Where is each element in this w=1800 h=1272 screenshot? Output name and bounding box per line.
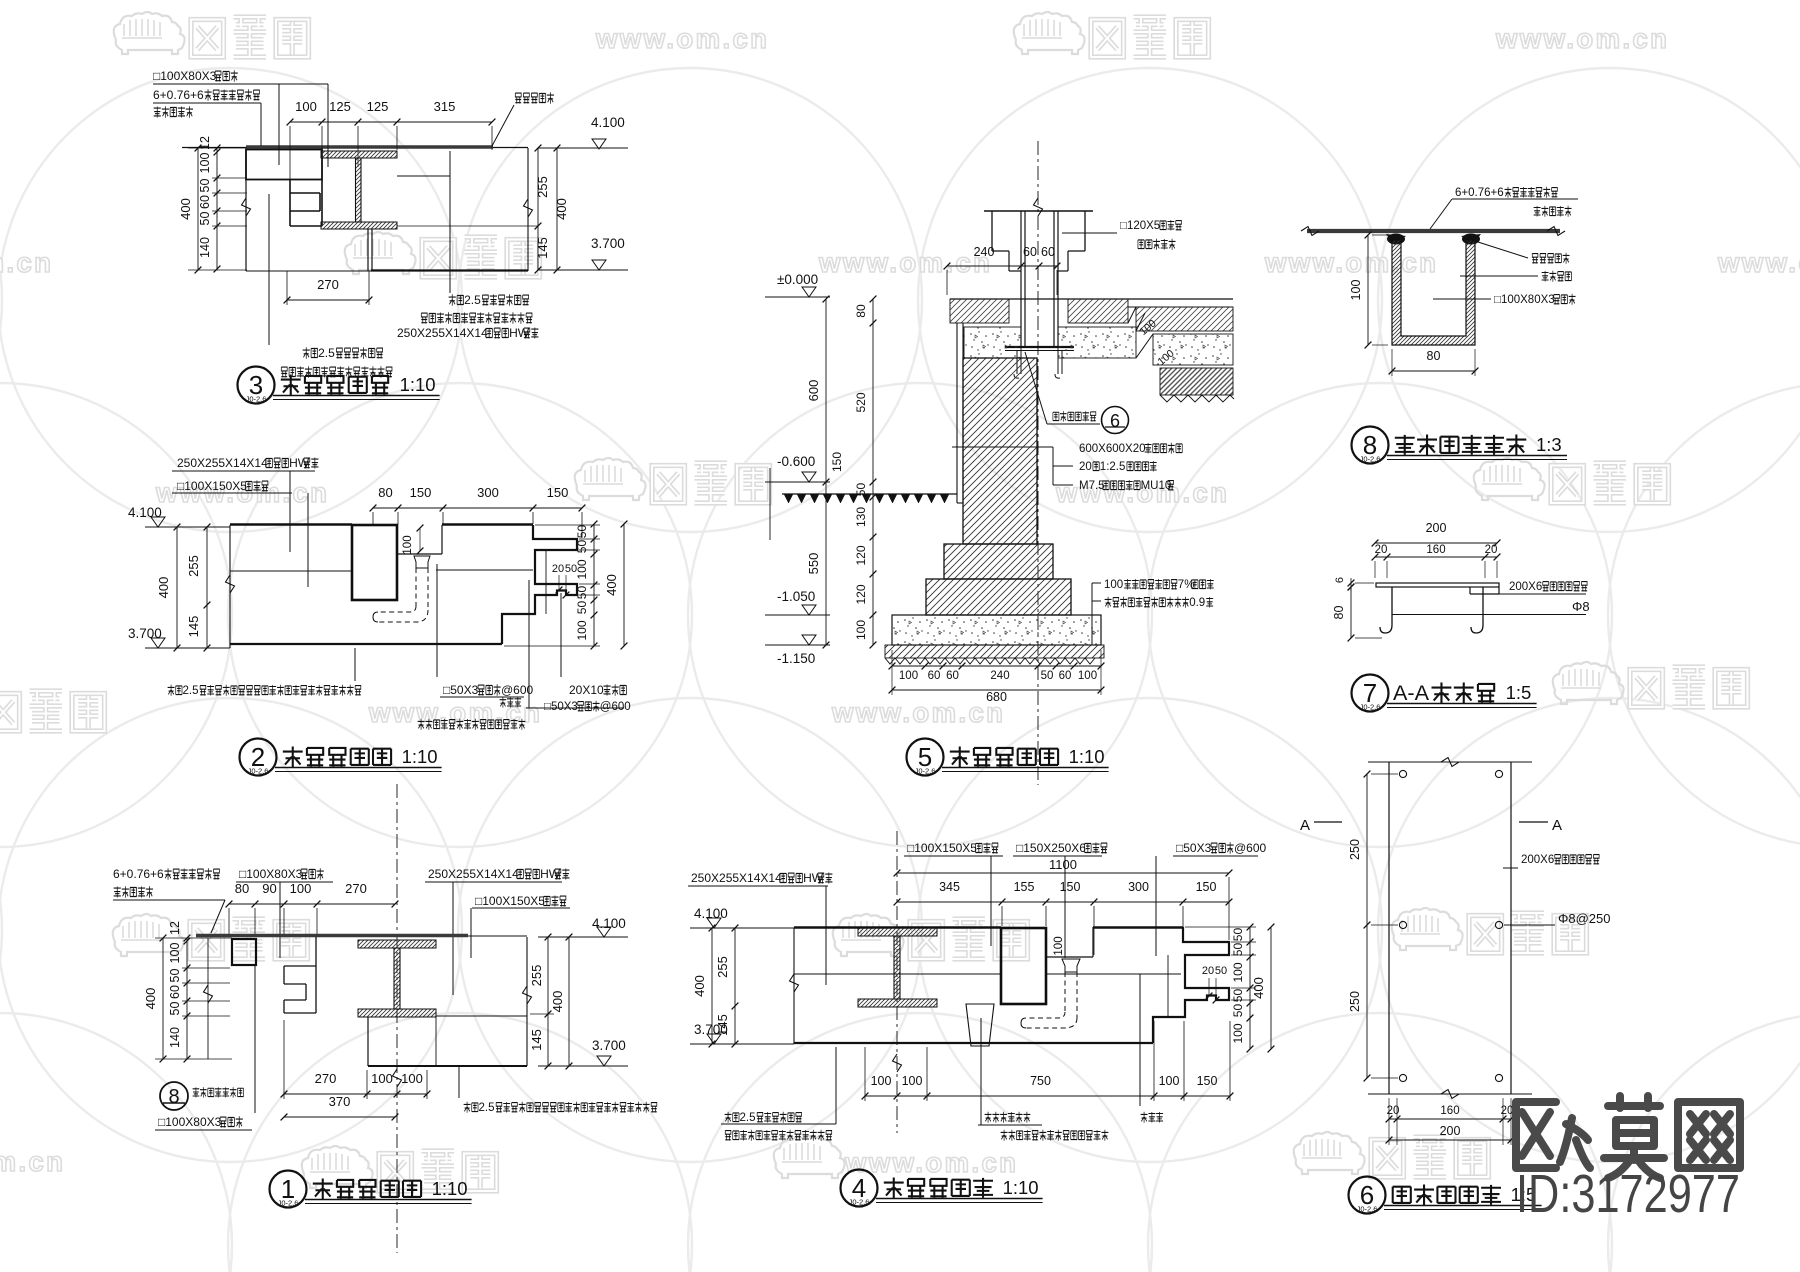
dim 1100 <box>897 872 1229 874</box>
svg-text:250: 250 <box>1348 991 1362 1012</box>
H-beam web hatched <box>356 158 362 222</box>
svg-text:6+0.76+6: 6+0.76+6 <box>153 88 204 102</box>
svg-text:255: 255 <box>535 176 550 198</box>
centerline <box>896 831 898 1133</box>
svg-text:4.100: 4.100 <box>694 906 728 921</box>
detail 8 glass fixing <box>1301 187 1578 376</box>
label glass <box>153 88 259 102</box>
svg-text:80: 80 <box>235 881 249 896</box>
svg-text:3.700: 3.700 <box>592 1038 626 1053</box>
svg-text:100: 100 <box>371 1071 393 1086</box>
svg-text:160: 160 <box>1426 544 1445 556</box>
svg-text:J0-2.6: J0-2.6 <box>1357 1205 1378 1214</box>
top dim chain 345/155/150/300/150 <box>897 901 1229 903</box>
H-beam top flange <box>321 151 397 158</box>
elevation 3.700 <box>592 260 606 270</box>
baseplate <box>1005 346 1074 348</box>
150X250X6 tube <box>352 525 397 600</box>
elevation -1.050 <box>802 605 816 615</box>
svg-text:50: 50 <box>198 179 212 193</box>
svg-text:100: 100 <box>575 559 589 579</box>
svg-text:60: 60 <box>928 670 941 682</box>
svg-text:50: 50 <box>1231 943 1245 957</box>
svg-text:270: 270 <box>315 1071 337 1086</box>
soffit line right <box>1046 973 1181 975</box>
svg-text:100: 100 <box>1159 1074 1180 1088</box>
svg-text:400: 400 <box>156 577 171 599</box>
svg-text:www.om.cn: www.om.cn <box>1264 247 1438 278</box>
svg-text:80: 80 <box>1427 349 1441 363</box>
svg-text:255: 255 <box>715 956 730 978</box>
svg-text:1:10: 1:10 <box>402 746 438 767</box>
centerline <box>396 784 398 1253</box>
svg-text:100: 100 <box>575 620 589 640</box>
svg-text:2.5: 2.5 <box>464 293 481 307</box>
label tube <box>1494 294 1576 306</box>
notch 100 <box>397 553 442 555</box>
svg-text:140: 140 <box>168 1027 182 1048</box>
plate stub below right <box>1470 593 1499 595</box>
svg-text:1:5: 1:5 <box>1506 682 1532 703</box>
dim 680 <box>892 689 1101 691</box>
svg-text:345: 345 <box>939 880 960 894</box>
svg-text:□100X80X3: □100X80X3 <box>153 69 217 83</box>
svg-text:150: 150 <box>410 485 432 500</box>
svg-text:2.5: 2.5 <box>183 685 199 697</box>
svg-text:130: 130 <box>854 507 868 527</box>
svg-text:400: 400 <box>143 988 158 1010</box>
label 20X10 drip <box>569 683 626 697</box>
detail 5 section <box>765 141 1234 785</box>
svg-text:400: 400 <box>178 198 193 220</box>
svg-text:J0-2.6: J0-2.6 <box>849 1198 870 1207</box>
svg-text:50: 50 <box>1231 928 1245 942</box>
svg-text:100: 100 <box>1231 1023 1245 1043</box>
bottom label aluminium <box>168 685 361 697</box>
glass panel thick <box>246 145 493 149</box>
label 100X80X3 bottom <box>158 1115 243 1129</box>
svg-text:@600: @600 <box>1234 841 1267 855</box>
right dims <box>547 937 549 1066</box>
bolt holes <box>1399 770 1406 777</box>
svg-text:A-A: A-A <box>1393 680 1430 705</box>
svg-text:4.100: 4.100 <box>128 505 162 520</box>
svg-text:4.100: 4.100 <box>591 115 625 130</box>
paving slab top line <box>950 298 1233 300</box>
left slab hatch <box>950 299 1009 323</box>
svg-text:2.5: 2.5 <box>479 1102 495 1114</box>
label drain pipe <box>500 697 522 708</box>
svg-text:270: 270 <box>345 881 367 896</box>
right slab surface line <box>1128 306 1233 308</box>
left dims <box>186 938 188 1059</box>
label aluminium plate left <box>303 346 383 360</box>
right dim 400 <box>556 148 558 270</box>
svg-text:60: 60 <box>1023 245 1037 259</box>
svg-text:145: 145 <box>715 1014 730 1036</box>
leader to bottom label <box>254 965 256 1113</box>
svg-text:150: 150 <box>830 452 844 472</box>
svg-text:50: 50 <box>575 540 589 554</box>
bottom plate stubs <box>367 229 369 271</box>
dim 370 <box>284 1116 395 1118</box>
svg-text:www.om.cn: www.om.cn <box>1495 23 1669 54</box>
leader 50X3 <box>436 564 438 677</box>
bottom labels <box>725 1112 802 1124</box>
label 150X250X6 tube <box>1016 841 1107 855</box>
elevation 3.700 <box>151 638 165 648</box>
svg-text:255: 255 <box>186 555 201 577</box>
svg-text:100: 100 <box>198 153 212 174</box>
H-beam bottom flange <box>321 222 397 229</box>
svg-text:@600: @600 <box>600 701 631 713</box>
right boundary with fins and drip notch <box>502 525 577 644</box>
bottom boundary <box>246 270 371 272</box>
svg-text:□150X250X6: □150X250X6 <box>1016 841 1086 855</box>
label 100X150X5 tube <box>177 479 268 493</box>
glass panel thin ends <box>182 147 528 149</box>
svg-text:www.om.cn: www.om.cn <box>831 697 1005 728</box>
gravel layer below footing <box>885 645 1104 658</box>
svg-text:20: 20 <box>1387 1105 1400 1117</box>
svg-text:100: 100 <box>1231 962 1245 982</box>
svg-text:160: 160 <box>1440 1105 1459 1117</box>
pier step 1 <box>944 544 1053 579</box>
stone cladding face <box>956 323 958 503</box>
svg-text:12: 12 <box>168 921 182 935</box>
svg-text:20: 20 <box>1079 461 1092 473</box>
labels base layers <box>1104 579 1214 591</box>
slab joint diagonals <box>1128 307 1136 323</box>
label 100X150X5 tube <box>475 894 566 908</box>
svg-text:□100X80X3: □100X80X3 <box>158 1115 222 1129</box>
svg-text:400: 400 <box>550 991 565 1013</box>
elevation +-0.000 <box>802 287 816 297</box>
svg-text:125: 125 <box>329 99 351 114</box>
svg-text:60: 60 <box>946 670 959 682</box>
svg-text:□50X3: □50X3 <box>1176 841 1212 855</box>
svg-text:A: A <box>1300 817 1310 834</box>
svg-text:1:2.5: 1:2.5 <box>1100 461 1126 473</box>
elevation 4.100 <box>707 918 721 928</box>
svg-text:370: 370 <box>329 1094 351 1109</box>
svg-text:20: 20 <box>1485 544 1498 556</box>
dim 80 bottom <box>1392 370 1475 372</box>
svg-text:150: 150 <box>1196 880 1217 894</box>
svg-text:50: 50 <box>854 483 868 497</box>
title bubble 8 <box>1352 427 1389 464</box>
svg-text:50: 50 <box>1041 670 1054 682</box>
dim 200 <box>1375 542 1497 544</box>
detail 6 embedded plate <box>1300 758 1611 1146</box>
svg-text:250: 250 <box>1348 839 1362 860</box>
label 100X150X5 tube <box>907 841 998 855</box>
svg-text:1:10: 1:10 <box>432 1178 468 1199</box>
svg-text:80: 80 <box>378 485 392 500</box>
svg-text:6: 6 <box>1110 411 1120 431</box>
elevation 3.700 <box>597 1056 611 1066</box>
detail 1 section <box>113 784 657 1253</box>
svg-text:□120X5: □120X5 <box>1120 220 1160 232</box>
label silicone <box>1532 253 1569 264</box>
soffit line left <box>794 973 1001 975</box>
title bubble 4 <box>841 1170 878 1207</box>
svg-text:ID:3172977: ID:3172977 <box>1516 1164 1740 1224</box>
svg-text:250X255X14X14: 250X255X14X14 <box>428 867 519 881</box>
svg-text:100: 100 <box>402 535 414 554</box>
svg-text:M7.5: M7.5 <box>1079 480 1105 492</box>
svg-text:100: 100 <box>1104 579 1123 591</box>
svg-text:60: 60 <box>1059 670 1072 682</box>
title bubble 2 <box>240 739 277 776</box>
label drainage system <box>418 719 526 730</box>
svg-text:200X6: 200X6 <box>1509 581 1542 593</box>
panel joint lines <box>397 175 450 177</box>
svg-text:J0-2.6: J0-2.6 <box>1360 703 1381 712</box>
svg-text:100: 100 <box>902 1074 923 1088</box>
svg-text:200X6: 200X6 <box>1521 854 1554 866</box>
right boundary with fins and drip notch <box>1153 927 1229 1043</box>
glass line <box>196 934 468 937</box>
title bubble 6 <box>1349 1177 1386 1214</box>
cap plate outline <box>991 211 993 251</box>
svg-text:2.5: 2.5 <box>740 1112 756 1124</box>
glass line <box>1307 229 1560 233</box>
label plate <box>1521 854 1599 866</box>
svg-text:100: 100 <box>290 881 312 896</box>
svg-text:0.9: 0.9 <box>1189 597 1205 609</box>
svg-text:3.700: 3.700 <box>128 626 162 641</box>
label glass pad <box>1542 271 1572 282</box>
dim 270 <box>287 299 369 301</box>
svg-text:□50X3: □50X3 <box>443 683 479 697</box>
drain pipe dashed <box>415 568 417 606</box>
elevation 4.100 <box>597 927 611 937</box>
label HW steel <box>691 871 832 885</box>
pier stem hatched <box>963 358 1037 544</box>
svg-text:100: 100 <box>295 99 317 114</box>
svg-text:90: 90 <box>262 881 276 896</box>
downlight trapezoid <box>966 1004 994 1046</box>
svg-text:J0-2.6: J0-2.6 <box>915 767 936 776</box>
svg-text:315: 315 <box>434 99 456 114</box>
svg-text:J0-2.6: J0-2.6 <box>248 767 269 776</box>
elevation 4.100 <box>151 517 165 527</box>
svg-text:300: 300 <box>1128 880 1149 894</box>
svg-text:12: 12 <box>198 136 212 150</box>
H-beam bottom flange <box>358 1009 436 1017</box>
elevation -1.150 <box>802 635 816 645</box>
left boundary <box>229 525 231 648</box>
H-beam top flange <box>358 940 436 948</box>
svg-text:100: 100 <box>401 1071 423 1086</box>
label silicone sealant <box>515 92 554 103</box>
svg-text:150: 150 <box>1060 880 1081 894</box>
svg-text:125: 125 <box>367 99 389 114</box>
aluminium comb profile <box>290 180 322 227</box>
bottom line <box>794 1042 1153 1044</box>
svg-text:250X255X14X14: 250X255X14X14 <box>177 456 268 470</box>
embedded part ref bubble 6 <box>1053 411 1096 422</box>
svg-text:20: 20 <box>552 563 564 575</box>
pier step 2 <box>926 579 1071 615</box>
drain funnel <box>1062 959 1080 972</box>
mid panel line <box>230 570 352 572</box>
svg-text:□100X150X5: □100X150X5 <box>475 894 545 908</box>
drip leader <box>560 593 562 677</box>
svg-text:±0.000: ±0.000 <box>777 272 818 287</box>
svg-text:200: 200 <box>1426 521 1447 535</box>
svg-text:120: 120 <box>854 545 868 565</box>
svg-text:www.om.cn: www.om.cn <box>818 247 992 278</box>
svg-text:600: 600 <box>806 380 821 402</box>
svg-text:400: 400 <box>604 574 619 596</box>
footing concrete <box>892 615 1101 645</box>
svg-text:□100X80X3: □100X80X3 <box>239 867 303 881</box>
svg-text:J0-2.6: J0-2.6 <box>278 1199 299 1208</box>
svg-text:50: 50 <box>1231 1004 1245 1018</box>
svg-text:-0.600: -0.600 <box>777 454 815 469</box>
svg-text:50: 50 <box>575 586 589 600</box>
steel channel 100X80X3 hatched walls <box>1392 240 1475 345</box>
detail 7 A-A section <box>1332 521 1590 641</box>
title bubble 1 <box>270 1171 307 1208</box>
H-beam web hatched <box>394 948 400 1009</box>
svg-text:250X255X14X14: 250X255X14X14 <box>397 326 488 340</box>
svg-text:140: 140 <box>198 237 212 258</box>
svg-text:50: 50 <box>168 969 182 983</box>
svg-text:100: 100 <box>854 620 868 640</box>
title bubble 7 <box>1352 675 1389 712</box>
svg-text:A: A <box>1552 817 1562 834</box>
svg-text:680: 680 <box>986 690 1007 704</box>
svg-text:□100X150X5: □100X150X5 <box>907 841 977 855</box>
svg-text:60: 60 <box>168 985 182 999</box>
svg-text:155: 155 <box>1014 880 1035 894</box>
svg-text:150: 150 <box>1197 1074 1218 1088</box>
labels <box>1455 187 1557 199</box>
svg-text:400: 400 <box>1251 977 1266 999</box>
svg-text:100: 100 <box>1053 936 1065 955</box>
H-beam bottom flange <box>858 999 937 1007</box>
inner panel line <box>545 550 547 614</box>
inner panel line right <box>1167 955 1169 1017</box>
svg-text:□100X150X5: □100X150X5 <box>177 479 247 493</box>
label plate <box>1509 581 1587 593</box>
bottom label 50X3 steel <box>443 683 534 697</box>
svg-text:255: 255 <box>529 965 544 987</box>
left boundary <box>793 928 795 1044</box>
drain pipe dashed <box>1064 972 1066 1012</box>
labels stone finish <box>1079 443 1182 455</box>
top line <box>794 926 1001 929</box>
svg-text:270: 270 <box>317 277 339 292</box>
svg-text:100: 100 <box>168 943 182 964</box>
notch 100 right of tube <box>1046 956 1093 958</box>
svg-text:400: 400 <box>692 975 707 997</box>
title bubble 5 <box>907 739 944 776</box>
svg-text:1:10: 1:10 <box>400 374 436 395</box>
centerline <box>1037 141 1039 785</box>
elevation -0.600 <box>802 472 816 482</box>
mortar bed stipple <box>964 327 1021 358</box>
label aluminium bottom right <box>464 1102 657 1114</box>
100X80X3 tube rect <box>232 939 256 965</box>
svg-text:50: 50 <box>1215 965 1227 977</box>
bottom dim chain 270/100/100 <box>284 1093 427 1095</box>
svg-text:145: 145 <box>186 616 201 638</box>
svg-text:6: 6 <box>1334 577 1346 583</box>
svg-text:400: 400 <box>554 198 569 220</box>
150X250X6 tube <box>1001 928 1046 1004</box>
svg-text:1:10: 1:10 <box>1069 746 1105 767</box>
svg-text:-1.150: -1.150 <box>777 651 815 666</box>
svg-text:□50X3: □50X3 <box>544 701 578 713</box>
svg-text:www.om.cn: www.om.cn <box>0 247 53 278</box>
svg-text:□100X80X3: □100X80X3 <box>1494 294 1555 306</box>
svg-text:20: 20 <box>1202 965 1214 977</box>
label 50X3 steel <box>1176 841 1267 855</box>
label glass <box>113 867 219 881</box>
svg-text:4.100: 4.100 <box>592 916 626 931</box>
svg-text:Φ8: Φ8 <box>1572 599 1590 614</box>
left dim 250/250 <box>1366 774 1368 1078</box>
silicone blobs <box>1386 234 1406 241</box>
svg-text:20: 20 <box>1375 544 1388 556</box>
elevation 4.100 <box>592 139 606 149</box>
svg-text:www.om.cn: www.om.cn <box>0 1146 65 1177</box>
svg-text:-1.050: -1.050 <box>777 589 815 604</box>
title bubble 3 <box>238 367 275 404</box>
bottom line <box>230 643 502 645</box>
svg-text:www.om.cn: www.om.cn <box>595 23 769 54</box>
label 120X5 tube <box>1120 220 1181 232</box>
svg-text:20X10: 20X10 <box>569 683 604 697</box>
left dim 400 <box>197 148 199 270</box>
label HW steel <box>177 456 318 470</box>
svg-text:50: 50 <box>575 525 589 539</box>
big logo text 欧模网 <box>1516 1096 1740 1178</box>
right boundary with break <box>527 148 529 271</box>
dim 100 left <box>1367 235 1369 345</box>
svg-text:1100: 1100 <box>1049 857 1077 872</box>
right slab hatch <box>1136 307 1233 331</box>
drain funnel <box>414 556 430 568</box>
grade line left <box>782 493 957 495</box>
H-beam web hatched <box>894 936 900 999</box>
svg-text:80: 80 <box>854 304 868 318</box>
svg-text:8: 8 <box>168 1086 179 1108</box>
column cap top line <box>984 210 1093 212</box>
right dim column <box>1249 927 1251 1049</box>
labels right HW steel <box>449 293 529 307</box>
svg-text:550: 550 <box>806 553 821 575</box>
svg-text:80: 80 <box>1332 606 1346 620</box>
svg-text:200: 200 <box>1440 1124 1461 1138</box>
right dim 400 <box>1270 927 1272 1049</box>
svg-text:300: 300 <box>477 485 499 500</box>
right box <box>436 1015 527 1017</box>
svg-text:600X600X20: 600X600X20 <box>1079 443 1146 455</box>
top dim chain 80/90/100/270 <box>229 903 395 905</box>
svg-text:150: 150 <box>547 485 569 500</box>
svg-text:6+0.76+6: 6+0.76+6 <box>1455 187 1504 199</box>
svg-text:240: 240 <box>974 245 995 259</box>
detail 4 section <box>688 831 1274 1141</box>
svg-text:100: 100 <box>1349 280 1363 301</box>
right soffit line <box>436 569 533 571</box>
elevation 3.700 <box>707 1034 721 1044</box>
